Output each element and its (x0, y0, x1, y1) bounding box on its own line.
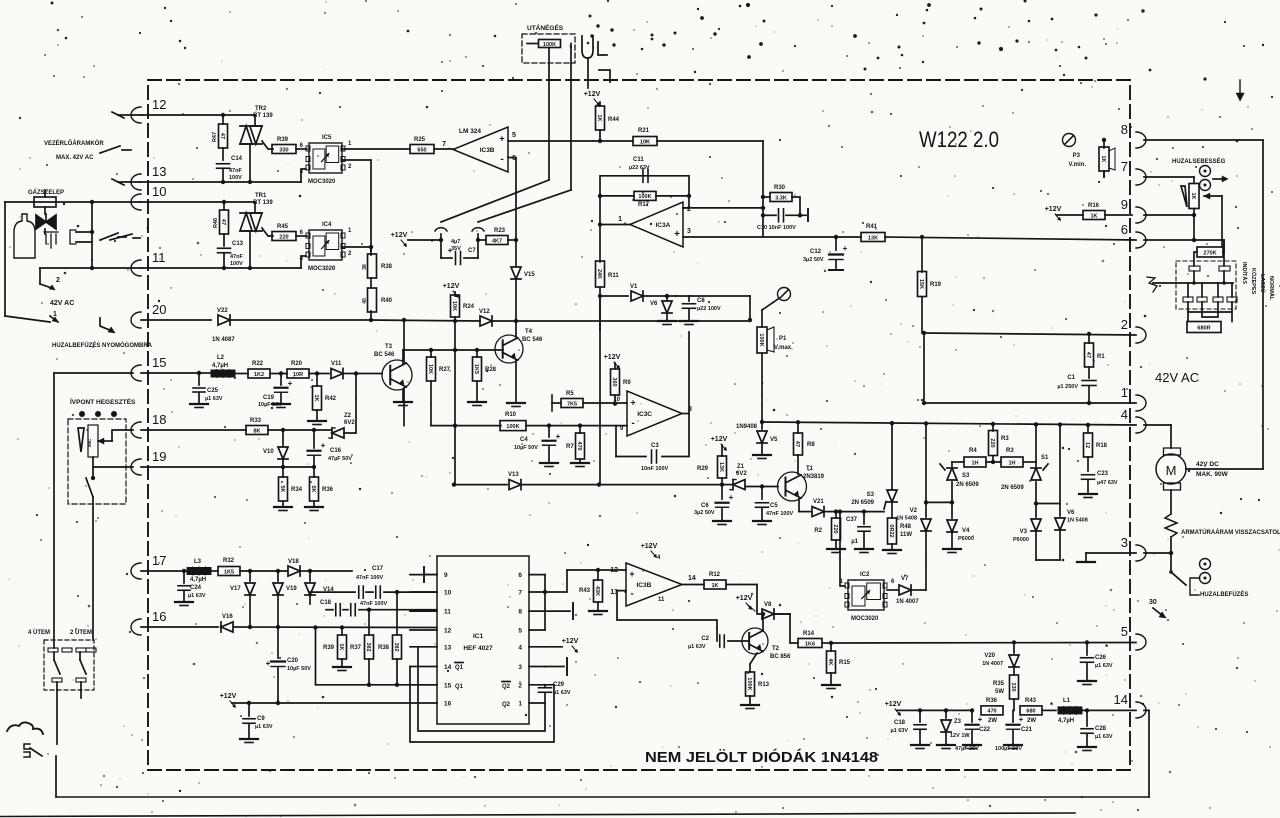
svg-text:*: * (1050, 701, 1054, 710)
dashed box IVPONT (68, 419, 126, 504)
svg-text:C6: C6 (701, 503, 709, 509)
svg-text:100K: 100K (746, 677, 752, 690)
label HUZALBEFUZES NYOMOGOMBRA (52, 341, 153, 349)
wire pin3 long (683, 235, 861, 239)
ivpont wire2 (93, 457, 133, 467)
wire R21 right corner (657, 141, 763, 237)
svg-text:C18: C18 (320, 600, 332, 606)
wire 12v rail (897, 708, 970, 712)
resistor R21 (633, 128, 657, 146)
svg-text:+: + (556, 432, 561, 441)
svg-text:8: 8 (518, 609, 522, 616)
thyristor S1 (1001, 424, 1049, 503)
capacitor C29 (0, 0, 1, 1)
arrow top right (1236, 80, 1244, 101)
wire T3 collector line (403, 348, 503, 364)
resistor R36b (981, 698, 1003, 724)
svg-text:18: 18 (152, 412, 166, 427)
resistor R16 (1057, 203, 1132, 220)
svg-text:3: 3 (687, 228, 691, 235)
resistor R38b (378, 635, 402, 685)
svg-text:4: 4 (518, 644, 522, 651)
svg-text:2W: 2W (1027, 718, 1036, 724)
wire terminal 13 (112, 179, 301, 185)
wire outer-left vertical (5, 202, 50, 322)
label +12V IC3D (641, 543, 665, 603)
resistor R39 (272, 137, 296, 154)
svg-text:1: 1 (348, 141, 352, 147)
svg-text:470: 470 (987, 709, 996, 715)
wire terminal 15 inner (141, 371, 211, 375)
svg-text:4K7: 4K7 (492, 238, 502, 244)
resistor R45 (272, 224, 296, 241)
wire IC3B minus input (508, 158, 516, 241)
svg-text:+12V: +12V (604, 354, 621, 361)
wire terminal 19 (141, 466, 314, 468)
svg-text:4,7µH: 4,7µH (212, 363, 228, 369)
resistor R11 (0, 0, 1, 1)
svg-text:R38: R38 (378, 645, 390, 651)
svg-text:R14: R14 (803, 631, 815, 637)
svg-text:12: 12 (152, 97, 166, 112)
wire bottom rail (56, 796, 1149, 798)
wire T2 collector (750, 653, 757, 664)
vertical node 599 (0, 0, 1, 1)
svg-text:-: - (630, 589, 633, 600)
mic wedge (78, 425, 98, 457)
resistor R32 (211, 558, 287, 576)
svg-text:R42: R42 (325, 396, 337, 402)
svg-text:14: 14 (1114, 692, 1128, 707)
diode V12 (479, 309, 492, 326)
svg-text:47nF: 47nF (230, 254, 243, 260)
mozgatas merge2 (1202, 302, 1218, 317)
svg-text:IC3A: IC3A (655, 222, 670, 229)
label NORMAL (1268, 276, 1275, 301)
wire terminal 6 out (1144, 238, 1224, 242)
svg-text:17: 17 (152, 553, 166, 568)
svg-text:+12V: +12V (562, 638, 579, 645)
svg-text:IC3C: IC3C (637, 411, 652, 418)
svg-text:UTÁNÉGÉS: UTÁNÉGÉS (527, 23, 564, 32)
resistor R25 (410, 137, 434, 154)
svg-text:5K: 5K (310, 485, 316, 492)
svg-text:R8: R8 (807, 442, 815, 448)
svg-text:13: 13 (152, 164, 166, 179)
svg-text:10R: 10R (293, 372, 303, 378)
svg-text:Z2: Z2 (344, 413, 352, 419)
inductor L3 (187, 559, 212, 583)
wire terminal 18 (0, 0, 1, 1)
svg-text:R24: R24 (463, 304, 475, 310)
wire 11 branch down (40, 268, 52, 288)
wire terminal 20 (141, 319, 211, 321)
wire V8 to R14 (775, 614, 798, 643)
svg-text:µ1 63V: µ1 63V (1095, 663, 1113, 669)
svg-text:S3: S3 (962, 473, 970, 479)
pressure switch bracket (70, 230, 92, 244)
resistor R27k (1197, 247, 1223, 257)
label +12V R44 (584, 91, 601, 106)
resistor R42 (308, 374, 337, 425)
svg-text:HEF 4027: HEF 4027 (463, 645, 493, 652)
capacitor C7 (441, 239, 478, 265)
svg-text:47nF 100V: 47nF 100V (360, 601, 388, 607)
wire utomero down-left (548, 48, 550, 181)
svg-text:W122 2.0: W122 2.0 (919, 127, 999, 152)
gas valve box (34, 190, 56, 214)
connector arc C7 right (472, 228, 484, 258)
svg-text:2: 2 (348, 251, 352, 257)
wire 12v rail2 (232, 701, 410, 705)
wire 6 branch (1223, 240, 1225, 252)
terminal 11 connector (131, 250, 166, 276)
label VEZERLOARAMKOR (44, 139, 104, 147)
svg-text:C14: C14 (231, 156, 243, 162)
svg-text:13K: 13K (718, 462, 724, 472)
diode V15 (511, 240, 535, 321)
svg-text:R7: R7 (566, 444, 574, 450)
shunt resistor (1165, 514, 1177, 553)
svg-text:S1: S1 (1041, 455, 1049, 461)
svg-text:2N3819: 2N3819 (803, 474, 825, 480)
svg-text:INDÍTÁS: INDÍTÁS (1241, 262, 1249, 284)
svg-text:42V AC: 42V AC (1155, 370, 1199, 385)
svg-text:3θ2: 3θ2 (393, 642, 399, 651)
svg-text:V19: V19 (286, 586, 297, 592)
capacitor C10 (757, 209, 808, 231)
label MAX 42V AC (56, 155, 94, 161)
wire terminal 15 (0, 0, 1, 1)
svg-text:V17: V17 (230, 586, 241, 592)
svg-text:1N 5408: 1N 5408 (1067, 518, 1088, 524)
torch tip symbol (582, 36, 610, 88)
svg-text:15K: 15K (918, 279, 924, 289)
capacitor C13 (218, 234, 244, 268)
svg-text:+12V: +12V (391, 232, 408, 239)
resistor R29 body (697, 445, 727, 485)
svg-text:+12V: +12V (220, 693, 237, 700)
svg-text:42V DC: 42V DC (1196, 461, 1219, 468)
terminal 13 connector (131, 164, 166, 190)
wire terminal 16 (141, 626, 218, 628)
capacitor C5 (753, 487, 794, 525)
wire terminal 10 (5, 200, 255, 204)
resistor R29 (0, 0, 1, 1)
svg-text:470: 470 (576, 441, 582, 450)
svg-text:-: - (676, 208, 679, 218)
resistor R23 (478, 228, 518, 245)
svg-text:V6: V6 (650, 301, 658, 307)
diode V7 (887, 576, 926, 605)
svg-text:P6000: P6000 (958, 536, 974, 542)
svg-text:1K: 1K (1190, 192, 1196, 199)
capacitor C18 (320, 600, 437, 616)
svg-text:V8: V8 (764, 602, 772, 608)
svg-text:V10: V10 (263, 449, 274, 455)
svg-text:R15: R15 (839, 660, 851, 666)
svg-text:2N 6509: 2N 6509 (1001, 485, 1024, 491)
svg-text:2: 2 (1121, 317, 1128, 332)
svg-text:11: 11 (658, 597, 665, 603)
wire IC3C output (662, 332, 689, 457)
svg-text:5: 5 (518, 628, 522, 635)
svg-text:R37: R37 (350, 645, 362, 651)
wire bottom left vertical (55, 756, 57, 797)
wire torch connector (24, 744, 42, 757)
svg-text:8: 8 (1121, 122, 1128, 137)
svg-text:7: 7 (442, 141, 446, 148)
svg-text:6V2: 6V2 (344, 420, 355, 426)
op-amp IC3C (627, 391, 692, 436)
befuzes rollers (1200, 559, 1211, 584)
svg-text:1K2: 1K2 (254, 372, 264, 378)
resistor R40 (362, 278, 393, 320)
svg-text:16: 16 (152, 609, 166, 624)
label +12V R9 (604, 354, 621, 369)
svg-text:3.3K: 3.3K (775, 195, 787, 201)
wire R11 down (599, 296, 601, 330)
wire IC2 left (838, 509, 845, 586)
svg-text:R12: R12 (709, 572, 721, 578)
svg-text:R1: R1 (1097, 354, 1105, 360)
arrow hook 20 (100, 318, 115, 333)
svg-text:100V: 100V (229, 175, 242, 181)
mozgatas contacts bottom (1183, 297, 1237, 302)
svg-text:ARMATÚRAÁRAM VISSZACSATOLÁS: ARMATÚRAÁRAM VISSZACSATOLÁS (1181, 529, 1280, 536)
42V AC label (1155, 370, 1199, 385)
wire IC4 pin2 (343, 245, 373, 249)
svg-text:IC3B: IC3B (637, 582, 652, 589)
svg-text:R44: R44 (608, 117, 620, 123)
terminal 15 connector (131, 355, 166, 381)
wire V13 line (0, 0, 1, 1)
wire L2 R22 (235, 373, 248, 375)
potentiometer P1 (0, 0, 1, 1)
mic arrow body (98, 438, 112, 444)
svg-text:R5: R5 (566, 391, 574, 397)
svg-text:47nF 100V: 47nF 100V (766, 511, 794, 517)
connector arc C7 left (435, 228, 447, 258)
svg-text:6: 6 (300, 143, 304, 149)
capacitor C16 electrolytic (0, 0, 1, 1)
svg-text:IC2: IC2 (860, 572, 870, 578)
resistor R24 (451, 292, 475, 485)
capacitor C9 (240, 703, 273, 743)
svg-text:R47: R47 (212, 132, 218, 142)
label IVPONT HEGESZTES (70, 397, 136, 406)
svg-text:1: 1 (348, 228, 352, 234)
wire R29 node (722, 484, 733, 486)
transistor T3 (374, 344, 412, 390)
capacitor C6 electrolytic (694, 485, 734, 525)
resistor R35b (305, 467, 334, 511)
svg-text:1N 5408: 1N 5408 (896, 516, 917, 522)
IC IC1 HEF4027 (437, 556, 529, 724)
svg-text:ÍVPONT HEGESZTÉS: ÍVPONT HEGESZTÉS (70, 397, 136, 406)
wire pin10 (310, 592, 355, 596)
svg-text:µ1 63V: µ1 63V (890, 728, 908, 734)
diode V16 (221, 614, 437, 632)
svg-text:1: 1 (1121, 385, 1128, 400)
svg-text:+12V: +12V (443, 283, 460, 290)
svg-text:30: 30 (1149, 599, 1157, 606)
wire R19 column (920, 235, 924, 272)
label 4 UTEM (28, 629, 50, 636)
capacitor C11 (629, 157, 650, 182)
svg-text:100K: 100K (638, 194, 651, 200)
svg-text:V2: V2 (910, 508, 918, 514)
resistor R10 (500, 412, 627, 431)
terminal 5 connector (1121, 624, 1146, 650)
utem contacts top (48, 648, 96, 652)
svg-text:2: 2 (518, 682, 522, 689)
svg-text:3µ2 50V: 3µ2 50V (694, 510, 715, 516)
svg-text:+: + (1019, 715, 1024, 724)
svg-text:100K: 100K (758, 333, 764, 346)
outer right wire (1186, 140, 1263, 469)
label 42V AC left (50, 300, 74, 307)
ivpont wires (112, 430, 133, 441)
gate wire TR2 (262, 141, 273, 149)
svg-text:+: + (978, 715, 983, 724)
svg-text:+: + (674, 229, 680, 240)
svg-text:6: 6 (518, 572, 522, 579)
svg-text:R36: R36 (986, 698, 998, 704)
svg-text:C13: C13 (232, 241, 244, 247)
svg-text:L1: L1 (1063, 698, 1071, 704)
svg-text:10µF 50V: 10µF 50V (287, 666, 311, 672)
resistor R22 (248, 361, 287, 378)
svg-text:R48: R48 (900, 524, 912, 530)
wire line4 (762, 420, 1136, 427)
svg-text:360: 360 (611, 377, 617, 386)
svg-text:T2: T2 (772, 646, 780, 652)
resistor R33 (246, 418, 331, 435)
utem contacts bottom (52, 678, 86, 682)
svg-text:V5: V5 (770, 437, 778, 443)
wire utem vert (0, 0, 1, 1)
svg-text:R19: R19 (930, 282, 942, 288)
svg-text:24K: 24K (596, 269, 602, 279)
capacitor C16 body (308, 428, 353, 469)
svg-text:R9: R9 (623, 380, 631, 386)
svg-text:47: 47 (794, 441, 800, 447)
terminal 20 connector (131, 302, 166, 328)
wire T3 emitter down (403, 388, 405, 426)
svg-text:-: - (500, 154, 503, 165)
svg-text:L3: L3 (194, 559, 202, 565)
mozgatas contact B (1219, 266, 1230, 271)
IC1 pin6 7 link (543, 575, 547, 630)
resistor R44 (596, 102, 620, 143)
diode V20 (982, 643, 1019, 676)
svg-text:5W: 5W (995, 689, 1004, 695)
dashed box UTOMERO (522, 34, 575, 63)
wire IC5 pin2 (343, 160, 371, 251)
triac TR2 (240, 106, 273, 182)
svg-text:BC 546: BC 546 (522, 337, 543, 343)
svg-text:IC5: IC5 (322, 135, 332, 141)
svg-text:HUZALBEFÜZÉS NYOMÓGOMBRA: HUZALBEFÜZÉS NYOMÓGOMBRA (52, 341, 153, 349)
wire V22 right (231, 318, 750, 322)
svg-text:NORMÁL: NORMÁL (1268, 276, 1275, 301)
svg-text:42V AC: 42V AC (50, 300, 74, 307)
wire IC3B plus input (508, 140, 594, 142)
svg-text:9: 9 (444, 572, 448, 579)
svg-text:T3: T3 (385, 344, 393, 350)
svg-text:BT 139: BT 139 (253, 200, 273, 206)
svg-text:1K: 1K (1100, 155, 1106, 162)
terminal 14 connector (1114, 692, 1146, 718)
wire C8 rail corner (689, 296, 752, 322)
wire gas bottom (90, 260, 94, 270)
svg-text:1N9408: 1N9408 (736, 424, 758, 430)
svg-text:12: 12 (610, 567, 618, 574)
svg-text:12: 12 (1084, 442, 1090, 448)
svg-text:C25: C25 (207, 388, 219, 394)
svg-text:C20: C20 (287, 658, 299, 664)
wire utomero diag left (441, 180, 549, 222)
capacitor C12 electrolytic (803, 237, 848, 270)
svg-text:+12V: +12V (641, 543, 658, 550)
svg-text:R32: R32 (223, 558, 235, 564)
svg-text:1H: 1H (1008, 460, 1015, 466)
terminal 1 connector (1121, 385, 1146, 411)
svg-text:10K: 10K (451, 301, 457, 311)
svg-text:R39: R39 (323, 645, 335, 651)
svg-text:µ1 63V: µ1 63V (553, 690, 571, 696)
capacitor C3 (616, 426, 669, 472)
svg-text:47: 47 (1085, 352, 1091, 358)
label +12V R16 (1045, 206, 1062, 221)
capacitor C28 (1078, 708, 1113, 750)
IC1 pin 13 (410, 644, 452, 651)
svg-text:C37: C37 (846, 517, 858, 523)
resistor R20 (279, 361, 329, 378)
wire utem below (57, 690, 81, 744)
switch S-gas (90, 202, 126, 260)
scan edge bottom (0, 813, 1075, 817)
svg-text:5K: 5K (279, 485, 285, 492)
svg-text:220: 220 (832, 524, 838, 533)
screw P3 (1063, 134, 1076, 147)
svg-text:47µF 50V: 47µF 50V (328, 456, 352, 462)
svg-text:C5: C5 (770, 503, 778, 509)
wire bottom right riser (1148, 710, 1150, 797)
gas valve bowtie (36, 214, 56, 229)
diode V11 (315, 361, 382, 379)
svg-text:µ1 63V: µ1 63V (1095, 734, 1113, 740)
resistor R28 (468, 350, 497, 406)
svg-text:MOC3020: MOC3020 (308, 266, 336, 272)
switch blade 2 (110, 234, 140, 240)
svg-text:7: 7 (1121, 159, 1128, 174)
svg-text:V1: V1 (630, 284, 638, 290)
ivpont dots (79, 411, 117, 417)
ivpont switch (86, 467, 95, 497)
svg-text:R33: R33 (250, 418, 262, 424)
IC1 pin4 12v (545, 638, 579, 653)
capacitor C26 (1078, 643, 1113, 685)
label GAZSZELEP (28, 189, 64, 196)
svg-text:6: 6 (1121, 222, 1128, 237)
wire T1 source (799, 499, 811, 512)
svg-text:10: 10 (152, 184, 166, 199)
op-amp IC3B (442, 127, 516, 172)
svg-text:12: 12 (444, 628, 452, 635)
terminal 12 connector (131, 97, 166, 123)
